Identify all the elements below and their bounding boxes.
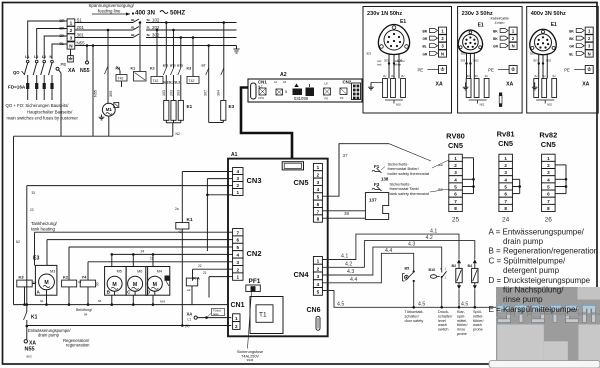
- svg-text:B2: B2: [452, 264, 457, 268]
- svg-text:Rv82: Rv82: [539, 131, 557, 140]
- svg-text:5: 5: [454, 184, 457, 189]
- svg-text:6: 6: [317, 202, 320, 207]
- svg-text:T42: T42: [118, 77, 124, 81]
- svg-text:RV80: RV80: [446, 132, 465, 141]
- svg-text:N2: N2: [16, 240, 20, 244]
- svg-text:CN4: CN4: [294, 270, 310, 279]
- svg-text:M: M: [112, 282, 116, 288]
- svg-text:3U: 3U: [485, 74, 488, 78]
- svg-text:tank safety thermostat: tank safety thermostat: [390, 191, 430, 196]
- svg-text:XA: XA: [436, 82, 443, 88]
- svg-text:5: 5: [317, 290, 320, 295]
- svg-text:4.5: 4.5: [461, 302, 468, 308]
- svg-text:N1: N1: [40, 299, 44, 303]
- svg-text:BT3: BT3: [177, 64, 183, 68]
- svg-text:6: 6: [547, 192, 550, 197]
- svg-text:CN3: CN3: [247, 176, 262, 185]
- svg-text:BK: BK: [569, 30, 574, 34]
- svg-text:400 3N: 400 3N: [135, 10, 155, 17]
- svg-text:4.2: 4.2: [345, 261, 352, 267]
- svg-text:BL: BL: [131, 26, 135, 30]
- svg-text:2: 2: [504, 163, 507, 168]
- svg-text:94: 94: [84, 312, 88, 316]
- svg-text:M: M: [153, 282, 157, 288]
- svg-text:3U: 3U: [383, 74, 386, 78]
- svg-text:203: 203: [169, 90, 173, 96]
- svg-text:N: N: [512, 44, 515, 49]
- svg-text:N55: N55: [94, 90, 98, 97]
- svg-text:B4: B4: [468, 264, 473, 268]
- svg-text:CN5: CN5: [498, 139, 513, 148]
- svg-text:7: 7: [454, 199, 457, 204]
- svg-text:M5: M5: [117, 269, 122, 273]
- svg-text:XA: XA: [68, 68, 75, 74]
- svg-text:26: 26: [545, 217, 553, 224]
- svg-text:B5: B5: [405, 267, 410, 271]
- svg-text:GR: GR: [423, 52, 428, 56]
- svg-text:detergent pump: detergent pump: [503, 266, 560, 275]
- svg-text:4.4: 4.4: [350, 277, 357, 283]
- svg-text:N02: N02: [546, 59, 552, 63]
- svg-text:M3: M3: [50, 270, 55, 274]
- svg-text:1: 1: [237, 190, 240, 195]
- svg-text:stat: stat: [438, 163, 443, 167]
- svg-text:A2: A2: [187, 288, 191, 292]
- svg-text:QO: QO: [13, 70, 20, 75]
- svg-text:303: 303: [384, 59, 389, 63]
- svg-text:Hauptschalter Bauseits/: Hauptschalter Bauseits/: [27, 109, 73, 114]
- svg-text:3U: 3U: [467, 74, 470, 78]
- svg-text:4.5: 4.5: [418, 302, 425, 308]
- svg-text:feeding line: feeding line: [98, 9, 121, 14]
- svg-text:CN2: CN2: [343, 80, 352, 85]
- svg-text:T42: T42: [189, 79, 195, 83]
- svg-text:3U: 3U: [391, 74, 394, 78]
- svg-text:4.3: 4.3: [408, 242, 415, 248]
- svg-text:regeneration: regeneration: [66, 343, 90, 348]
- svg-text:E3: E3: [229, 104, 235, 109]
- svg-text:PE: PE: [61, 62, 67, 67]
- svg-text:white: white: [394, 63, 401, 67]
- svg-text:XA: XA: [506, 82, 513, 88]
- svg-text:B = Regeneration/regeneration: B = Regeneration/regeneration: [489, 247, 599, 256]
- svg-text:P4: P4: [340, 96, 344, 100]
- svg-text:N02: N02: [473, 59, 479, 63]
- svg-text:probe: probe: [473, 328, 483, 332]
- svg-text:N63: N63: [160, 300, 166, 304]
- svg-text:2: 2: [317, 266, 320, 271]
- svg-text:3U: 3U: [534, 74, 537, 78]
- svg-text:D = Drucksteigerungspumpe: D = Drucksteigerungspumpe: [489, 276, 591, 285]
- svg-text:6: 6: [504, 192, 507, 197]
- svg-text:L3: L3: [42, 55, 46, 59]
- svg-text:E = Klarspülmittelpumpe/: E = Klarspülmittelpumpe/: [489, 305, 579, 314]
- svg-text:3: 3: [317, 274, 320, 279]
- svg-text:3: 3: [237, 260, 240, 265]
- svg-text:mittel-: mittel-: [457, 319, 468, 323]
- svg-text:138: 138: [381, 177, 389, 182]
- svg-text:E1: E1: [551, 22, 557, 28]
- svg-text:SL: SL: [147, 26, 151, 30]
- svg-text:4.1: 4.1: [430, 229, 437, 235]
- svg-text:CN2: CN2: [247, 249, 262, 258]
- svg-text:A1: A1: [231, 152, 238, 158]
- svg-text:1: 1: [454, 156, 457, 161]
- svg-text:303: 303: [366, 52, 371, 56]
- svg-text:GR: GR: [569, 45, 574, 49]
- svg-text:N55: N55: [25, 347, 35, 353]
- svg-text:307: 307: [204, 90, 208, 96]
- svg-text:PE: PE: [488, 68, 494, 73]
- svg-text:031099: 031099: [294, 96, 309, 101]
- svg-text:1: 1: [504, 156, 507, 161]
- svg-text:2: 2: [317, 173, 320, 178]
- svg-text:T1: T1: [259, 312, 267, 319]
- svg-text:8: 8: [504, 206, 507, 211]
- svg-text:PF1: PF1: [249, 278, 261, 285]
- svg-text:Rv81: Rv81: [497, 130, 515, 139]
- svg-text:304: 304: [216, 90, 220, 96]
- svg-text:303: 303: [461, 52, 466, 56]
- svg-text:CN5: CN5: [448, 141, 463, 150]
- svg-text:N02: N02: [547, 103, 552, 107]
- svg-text:SL: SL: [147, 33, 151, 37]
- svg-text:B10: B10: [429, 268, 436, 272]
- svg-text:3: 3: [237, 176, 240, 181]
- svg-text:8: 8: [454, 206, 457, 211]
- svg-text:K1: K1: [31, 315, 38, 321]
- svg-text:2: 2: [237, 183, 240, 188]
- svg-text:N1: N1: [98, 299, 102, 303]
- svg-text:switch: switch: [438, 328, 449, 332]
- svg-text:N55: N55: [80, 68, 90, 74]
- svg-text:7: 7: [317, 209, 320, 214]
- svg-text:N: N: [588, 51, 591, 56]
- svg-text:1: 1: [317, 259, 320, 264]
- svg-text:schalter/: schalter/: [438, 314, 453, 318]
- svg-text:drain pump: drain pump: [503, 237, 544, 246]
- svg-text:5: 5: [504, 184, 507, 189]
- svg-text:N2: N2: [176, 132, 180, 136]
- svg-text:9946: 9946: [247, 358, 254, 362]
- svg-text:tank heating: tank heating: [31, 226, 55, 231]
- svg-text:6: 6: [454, 192, 457, 197]
- svg-text:50HZ: 50HZ: [170, 10, 185, 17]
- svg-text:main switches end fuses by cus: main switches end fuses by customer: [7, 116, 79, 121]
- svg-text:1: 1: [547, 156, 550, 161]
- svg-text:202: 202: [152, 25, 160, 30]
- svg-text:BK: BK: [493, 30, 498, 34]
- svg-text:5: 5: [237, 245, 240, 250]
- svg-text:BT: BT: [202, 64, 206, 68]
- svg-text:fühler/: fühler/: [473, 319, 484, 323]
- svg-text:3U: 3U: [401, 74, 404, 78]
- svg-text:137: 137: [369, 198, 377, 203]
- svg-text:37: 37: [343, 153, 349, 158]
- svg-text:6: 6: [237, 238, 240, 243]
- svg-text:M: M: [133, 282, 137, 288]
- svg-text:M6: M6: [137, 269, 142, 273]
- svg-text:4.4: 4.4: [385, 248, 392, 254]
- svg-text:BR: BR: [423, 30, 428, 34]
- svg-text:303: 303: [533, 59, 538, 63]
- svg-text:BL: BL: [131, 33, 135, 37]
- svg-text:230v 3 50hz: 230v 3 50hz: [462, 11, 493, 17]
- svg-text:FD=16A: FD=16A: [8, 85, 26, 90]
- svg-text:4: 4: [547, 177, 550, 182]
- svg-text:5: 5: [317, 195, 320, 200]
- svg-text:301: 301: [77, 32, 85, 37]
- svg-text:M1: M1: [106, 107, 113, 112]
- svg-text:102: 102: [152, 17, 160, 22]
- svg-text:L2: L2: [274, 80, 278, 84]
- svg-text:90: 90: [96, 282, 100, 286]
- svg-text:BT2: BT2: [170, 64, 176, 68]
- svg-text:CN5: CN5: [294, 178, 309, 187]
- svg-text:rinse pump: rinse pump: [503, 295, 543, 304]
- svg-text:K3: K3: [19, 275, 25, 280]
- svg-text:201: 201: [77, 25, 85, 30]
- svg-text:1: 1: [70, 20, 73, 25]
- svg-text:230v 1N 50hz: 230v 1N 50hz: [367, 11, 402, 17]
- svg-text:CPO: CPO: [258, 96, 265, 100]
- svg-text:K3: K3: [187, 67, 192, 71]
- svg-text:CN5: CN5: [541, 140, 556, 149]
- svg-text:33: 33: [32, 191, 36, 195]
- svg-text:XA: XA: [187, 312, 193, 317]
- svg-text:3: 3: [547, 170, 550, 175]
- svg-text:24: 24: [502, 217, 510, 224]
- svg-text:BL: BL: [131, 18, 135, 22]
- svg-text:A2: A2: [280, 72, 287, 78]
- svg-text:drain pump: drain pump: [38, 333, 60, 338]
- svg-text:Türkontakt-: Türkontakt-: [405, 310, 425, 314]
- svg-text:4.1: 4.1: [341, 254, 348, 260]
- svg-text:M4: M4: [157, 269, 162, 273]
- svg-text:3U: 3U: [475, 74, 478, 78]
- svg-text:rinse: rinse: [457, 328, 465, 332]
- svg-text:Y4: Y4: [82, 275, 88, 280]
- svg-text:BL: BL: [423, 45, 427, 49]
- svg-text:L8: L8: [283, 80, 287, 84]
- svg-text:für Nachspülung/: für Nachspülung/: [503, 286, 564, 295]
- svg-text:taste: taste: [213, 312, 219, 316]
- svg-text:stat: stat: [438, 187, 443, 191]
- svg-text:7: 7: [237, 230, 240, 235]
- svg-text:N: N: [441, 51, 444, 56]
- svg-text:3: 3: [504, 170, 507, 175]
- svg-text:L2: L2: [34, 55, 38, 59]
- svg-text:PE: PE: [564, 68, 570, 73]
- svg-text:400v 3N 50hz: 400v 3N 50hz: [531, 11, 566, 17]
- svg-text:P0: P0: [325, 97, 329, 101]
- svg-text:5: 5: [547, 184, 550, 189]
- svg-text:4: 4: [317, 187, 320, 192]
- svg-text:mittel-: mittel-: [473, 314, 484, 318]
- svg-text:CN6: CN6: [307, 307, 321, 314]
- svg-text:1: 1: [317, 165, 320, 170]
- svg-text:4: 4: [237, 253, 240, 258]
- svg-text:probe: probe: [457, 332, 467, 336]
- svg-text:8: 8: [317, 217, 320, 222]
- svg-text:wash: wash: [473, 323, 482, 327]
- svg-text:T42: T42: [153, 79, 159, 83]
- svg-text:23: 23: [30, 208, 34, 212]
- svg-text:303: 303: [177, 90, 181, 96]
- svg-text:21: 21: [203, 271, 207, 275]
- svg-text:3U: 3U: [542, 74, 545, 78]
- svg-text:red: red: [377, 63, 382, 67]
- svg-text:level: level: [438, 319, 446, 323]
- svg-text:3: 3: [317, 180, 320, 185]
- svg-text:305: 305: [109, 91, 113, 97]
- svg-text:3: 3: [454, 170, 457, 175]
- svg-text:7: 7: [547, 199, 550, 204]
- svg-text:CN1: CN1: [231, 302, 245, 309]
- svg-text:303: 303: [460, 59, 465, 63]
- svg-text:GR: GR: [423, 37, 428, 41]
- svg-text:4.2: 4.2: [426, 235, 433, 241]
- svg-text:4: 4: [504, 177, 507, 182]
- svg-text:BL: BL: [569, 52, 573, 56]
- svg-text:M: M: [44, 280, 48, 286]
- svg-text:Tankheizung/: Tankheizung/: [31, 221, 58, 226]
- svg-text:803: 803: [27, 355, 32, 359]
- svg-text:SL1SL2SL3: SL1SL2SL3: [163, 81, 181, 85]
- svg-text:24: 24: [141, 250, 145, 254]
- svg-text:door safety: door safety: [405, 319, 424, 323]
- svg-text:22: 22: [198, 264, 202, 268]
- svg-text:L1: L1: [188, 318, 192, 322]
- svg-text:schalter/: schalter/: [405, 314, 420, 318]
- svg-text:SL: SL: [147, 18, 151, 22]
- svg-text:103: 103: [162, 90, 166, 96]
- svg-text:302: 302: [152, 32, 160, 37]
- svg-text:XA: XA: [582, 82, 589, 88]
- svg-text:4.3: 4.3: [347, 269, 354, 275]
- svg-text:2: 2: [237, 267, 240, 272]
- svg-text:38: 38: [344, 211, 350, 216]
- svg-text:K1: K1: [131, 67, 136, 71]
- svg-text:2: 2: [235, 324, 238, 329]
- svg-text:C = Spülmittelpumpe/: C = Spülmittelpumpe/: [489, 256, 566, 265]
- svg-text:boiler safety thermostat: boiler safety thermostat: [388, 171, 430, 176]
- svg-text:S1: S1: [77, 17, 83, 22]
- svg-text:25: 25: [452, 217, 460, 224]
- svg-text:2a: 2a: [175, 207, 179, 211]
- svg-text:303: 303: [530, 52, 535, 56]
- svg-text:E1: E1: [400, 19, 406, 25]
- svg-text:N02: N02: [396, 103, 401, 107]
- svg-text:Klar-: Klar-: [457, 310, 466, 314]
- svg-text:E1: E1: [478, 23, 484, 29]
- svg-text:1: 1: [237, 275, 240, 280]
- svg-text:N55: N55: [77, 40, 86, 45]
- svg-text:4: 4: [317, 282, 320, 287]
- svg-text:2: 2: [454, 163, 457, 168]
- svg-text:1: 1: [235, 316, 238, 321]
- svg-text:QO + FO: Sicherungen Bauseits/: QO + FO: Sicherungen Bauseits/: [6, 103, 70, 108]
- svg-text:4 mm²: 4 mm²: [495, 21, 506, 25]
- svg-text:3U: 3U: [552, 74, 555, 78]
- svg-text:Spül-: Spül-: [473, 310, 483, 314]
- svg-text:11: 11: [150, 257, 154, 261]
- svg-text:N02: N02: [480, 103, 485, 107]
- svg-text:K2: K2: [63, 275, 69, 280]
- svg-text:3: 3: [70, 35, 73, 40]
- svg-text:2: 2: [70, 28, 73, 33]
- svg-text:E3: E3: [33, 256, 39, 262]
- svg-text:4: 4: [237, 169, 240, 174]
- svg-text:4: 4: [454, 177, 457, 182]
- svg-text:L8: L8: [325, 82, 329, 86]
- svg-text:4.5: 4.5: [337, 302, 344, 308]
- svg-text:2: 2: [547, 163, 550, 168]
- svg-text:Druck-: Druck-: [438, 310, 450, 314]
- svg-text:K2: K2: [150, 67, 155, 71]
- svg-text:BK: BK: [569, 37, 574, 41]
- svg-text:7: 7: [504, 199, 507, 204]
- svg-text:PE: PE: [418, 68, 424, 73]
- svg-text:spül-: spül-: [457, 314, 466, 318]
- svg-text:8: 8: [547, 206, 550, 211]
- svg-text:N: N: [50, 55, 53, 59]
- svg-text:BK: BK: [493, 37, 498, 41]
- svg-text:Spannungsversorgung/: Spannungsversorgung/: [89, 3, 135, 8]
- svg-text:fühler/: fühler/: [457, 323, 468, 327]
- svg-text:A = Entwässerungspumpe/: A = Entwässerungspumpe/: [489, 227, 585, 236]
- svg-text:L1: L1: [25, 55, 29, 59]
- svg-text:wash: wash: [438, 323, 447, 327]
- svg-text:(N): (N): [185, 324, 189, 328]
- svg-text:GR: GR: [493, 45, 498, 49]
- svg-text:BT1: BT1: [163, 64, 169, 68]
- svg-text:E1: E1: [187, 104, 193, 109]
